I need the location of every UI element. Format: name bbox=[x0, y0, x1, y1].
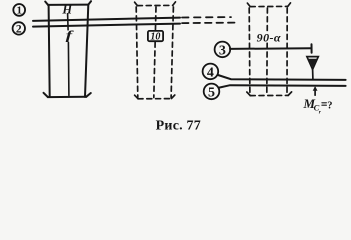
svg-text:f: f bbox=[66, 28, 74, 43]
svg-text:4: 4 bbox=[207, 66, 214, 81]
svg-text:10: 10 bbox=[150, 31, 160, 42]
svg-text:3: 3 bbox=[219, 44, 226, 59]
svg-text:Рис. 77: Рис. 77 bbox=[156, 118, 201, 133]
svg-text:5: 5 bbox=[208, 86, 215, 101]
svg-text:r: r bbox=[319, 110, 322, 116]
svg-text:H: H bbox=[61, 3, 73, 17]
svg-text:1: 1 bbox=[16, 5, 22, 17]
svg-text:90-α: 90-α bbox=[257, 31, 281, 45]
svg-text:?: ? bbox=[327, 100, 332, 111]
svg-text:2: 2 bbox=[16, 23, 22, 35]
